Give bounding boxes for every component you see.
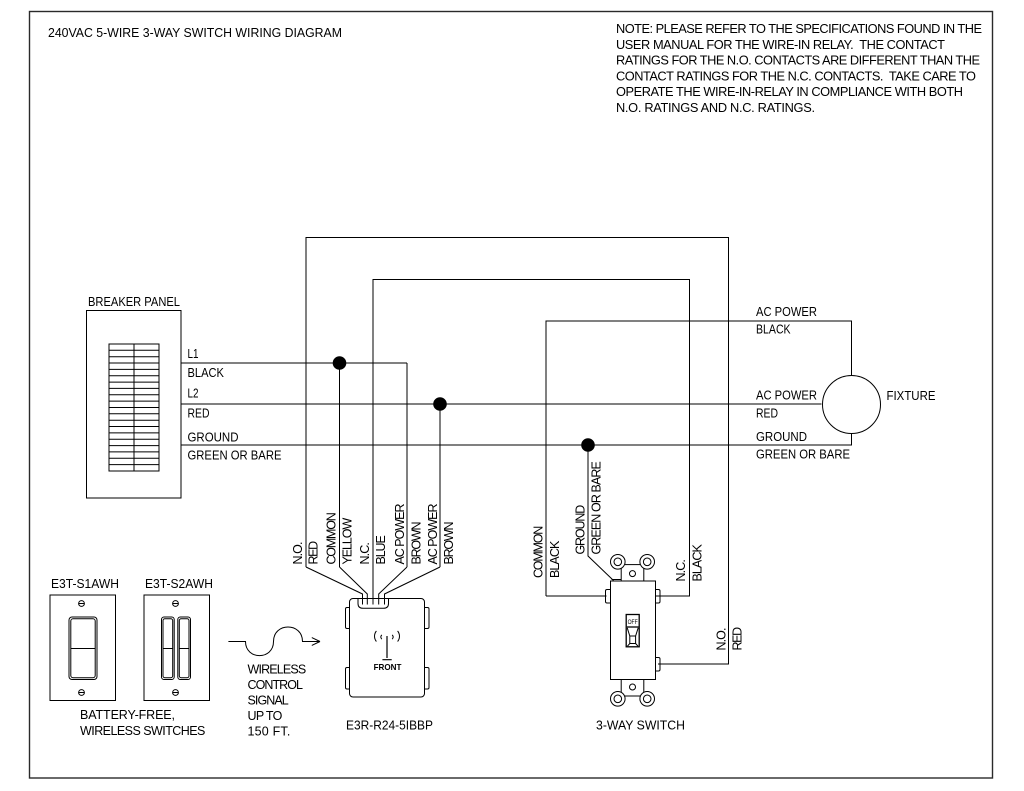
svg-text:AC POWER: AC POWER bbox=[426, 504, 440, 565]
breaker panel grid bbox=[109, 344, 159, 471]
wire relay COMMON drop bbox=[339, 363, 341, 567]
svg-text:UP TO: UP TO bbox=[248, 709, 283, 723]
svg-text:AC POWER: AC POWER bbox=[756, 389, 817, 403]
svg-text:L2: L2 bbox=[188, 387, 199, 401]
svg-text:FRONT: FRONT bbox=[374, 663, 402, 672]
wireless switch E3T-S1AWH plate bbox=[50, 595, 116, 701]
wire N.C. loop: relay N.C. to switch N.C. bbox=[373, 280, 690, 597]
svg-text:GREEN OR BARE: GREEN OR BARE bbox=[590, 461, 604, 554]
svg-text:GROUND: GROUND bbox=[188, 431, 239, 445]
note text bbox=[616, 21, 982, 115]
wire switch common stub bbox=[546, 595, 607, 597]
svg-text:CONTROL: CONTROL bbox=[248, 678, 304, 692]
3-way switch labels rotated bbox=[532, 461, 745, 650]
svg-text:USER MANUAL FOR THE WIRE-IN RE: USER MANUAL FOR THE WIRE-IN RELAY. THE C… bbox=[616, 37, 945, 52]
wire AC POWER BLACK: switch common to fixture bbox=[546, 321, 852, 596]
svg-text:OFF: OFF bbox=[628, 619, 638, 626]
screw top S1 bbox=[79, 601, 85, 607]
svg-text:3-WAY SWITCH: 3-WAY SWITCH bbox=[596, 717, 685, 732]
junction dot on L1 bbox=[333, 357, 346, 370]
svg-text:NOTE: PLEASE REFER TO THE SPEC: NOTE: PLEASE REFER TO THE SPECIFICATIONS… bbox=[616, 21, 982, 36]
svg-text:N.O. RATINGS AND N.C. RATINGS.: N.O. RATINGS AND N.C. RATINGS. bbox=[616, 100, 815, 115]
3-way switch toggle bbox=[626, 615, 639, 647]
svg-text:SIGNAL: SIGNAL bbox=[248, 694, 289, 708]
screw bottom S2 bbox=[173, 690, 179, 696]
wireless signal squiggle arrow bbox=[228, 627, 320, 656]
wire L2 RED horizontal bbox=[181, 403, 822, 405]
svg-text:RED: RED bbox=[188, 407, 210, 421]
relay wire diagonals bbox=[306, 567, 440, 605]
svg-text:WIRELESS SWITCHES: WIRELESS SWITCHES bbox=[80, 724, 205, 738]
svg-text:150 FT.: 150 FT. bbox=[248, 725, 291, 739]
breaker panel box bbox=[87, 311, 182, 499]
battery-free label bbox=[80, 708, 205, 738]
rocker S2 left bbox=[162, 617, 175, 680]
wire GROUND horizontal bbox=[181, 434, 852, 446]
svg-text:BROWN: BROWN bbox=[442, 522, 456, 565]
svg-text:L1: L1 bbox=[188, 347, 199, 361]
svg-text:AC POWER: AC POWER bbox=[393, 504, 407, 565]
svg-text:240VAC 5-WIRE 3-WAY SWITCH WIR: 240VAC 5-WIRE 3-WAY SWITCH WIRING DIAGRA… bbox=[48, 25, 342, 40]
relay U1 body bbox=[350, 599, 425, 698]
svg-text:BLUE: BLUE bbox=[374, 535, 388, 564]
svg-text:N.O.: N.O. bbox=[291, 542, 305, 565]
rocker S2 right bbox=[178, 617, 191, 680]
svg-text:BLACK: BLACK bbox=[188, 366, 225, 380]
3-way switch body bbox=[611, 581, 656, 680]
svg-text:WIRELESS: WIRELESS bbox=[248, 663, 307, 677]
svg-text:RED: RED bbox=[756, 407, 778, 421]
svg-text:FIXTURE: FIXTURE bbox=[887, 389, 936, 403]
rocker S1 bbox=[69, 617, 97, 680]
svg-text:BLACK: BLACK bbox=[756, 323, 791, 337]
3-way switch S1 bottom bracket bbox=[611, 680, 655, 707]
screw top S2 bbox=[173, 601, 179, 607]
wire relay AC POWER drop 2 bbox=[439, 404, 441, 567]
3-way switch S1 top bracket bbox=[611, 555, 655, 582]
svg-text:GREEN OR BARE: GREEN OR BARE bbox=[756, 448, 850, 462]
wire L1 BLACK horizontal bbox=[181, 362, 407, 364]
svg-text:BLACK: BLACK bbox=[691, 544, 705, 582]
svg-text:YELLOW: YELLOW bbox=[341, 518, 355, 565]
svg-text:GROUND: GROUND bbox=[574, 505, 588, 555]
wire ground to switch bbox=[588, 445, 614, 581]
svg-text:N.C.: N.C. bbox=[358, 542, 372, 564]
wireless control signal label bbox=[248, 663, 307, 739]
svg-text:BROWN: BROWN bbox=[410, 522, 424, 565]
screw bottom S1 bbox=[79, 690, 85, 696]
wireless switch E3T-S2AWH plate bbox=[144, 595, 210, 701]
svg-text:BREAKER PANEL: BREAKER PANEL bbox=[88, 295, 180, 309]
svg-text:COMMON: COMMON bbox=[325, 512, 339, 564]
svg-text:AC POWER: AC POWER bbox=[756, 305, 817, 319]
svg-text:OPERATE THE WIRE-IN-RELAY IN C: OPERATE THE WIRE-IN-RELAY IN COMPLIANCE … bbox=[616, 84, 963, 99]
svg-text:GROUND: GROUND bbox=[756, 430, 807, 444]
svg-text:COMMON: COMMON bbox=[532, 526, 546, 578]
ground wire terminal tick bbox=[612, 579, 622, 581]
relay wire entry stubs bbox=[363, 599, 385, 605]
junction dot on GROUND bbox=[582, 439, 595, 452]
svg-text:RED: RED bbox=[307, 541, 321, 565]
relay wire labels rotated bbox=[291, 504, 456, 565]
relay top notch bbox=[358, 599, 389, 609]
relay U1 mounting tabs bbox=[346, 608, 352, 629]
svg-text:N.O.: N.O. bbox=[715, 628, 729, 651]
svg-text:BATTERY-FREE,: BATTERY-FREE, bbox=[80, 708, 175, 722]
svg-text:E3T-S1AWH: E3T-S1AWH bbox=[51, 577, 119, 591]
3-way switch side tabs bbox=[606, 590, 612, 604]
relay antenna icon bbox=[375, 631, 400, 660]
svg-text:BLACK: BLACK bbox=[548, 540, 562, 578]
junction dot on L2 bbox=[434, 398, 447, 411]
svg-text:N.C.: N.C. bbox=[674, 559, 688, 581]
svg-text:RED: RED bbox=[731, 627, 745, 651]
wire relay AC POWER drop 1 bbox=[406, 363, 408, 567]
svg-text:GREEN OR BARE: GREEN OR BARE bbox=[188, 449, 282, 463]
svg-text:RATINGS FOR THE N.O. CONTACTS: RATINGS FOR THE N.O. CONTACTS ARE DIFFER… bbox=[616, 53, 980, 68]
svg-text:E3T-S2AWH: E3T-S2AWH bbox=[145, 577, 213, 591]
svg-text:CONTACT RATINGS FOR THE N.C. C: CONTACT RATINGS FOR THE N.C. CONTACTS. T… bbox=[616, 68, 976, 83]
svg-text:E3R-R24-5IBBP: E3R-R24-5IBBP bbox=[346, 718, 433, 733]
fixture lamp bbox=[823, 376, 881, 434]
wire N.O. loop: relay N.O. to switch N.O. via top bbox=[306, 238, 729, 665]
